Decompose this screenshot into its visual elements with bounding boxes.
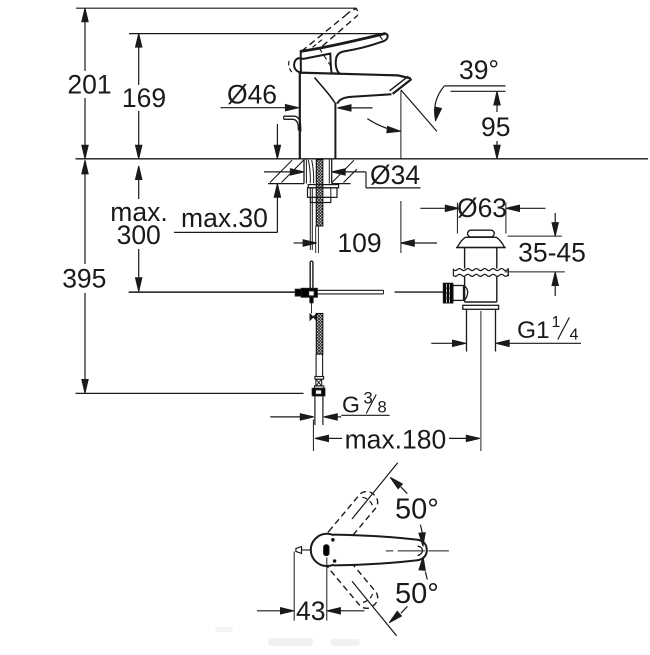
- svg-text:50°: 50°: [395, 494, 439, 526]
- dimension 43: [257, 552, 365, 627]
- svg-text:43: 43: [296, 596, 325, 626]
- 39° opposite arc arrow: [367, 119, 400, 133]
- svg-text:4: 4: [570, 327, 579, 344]
- dimension G3/8: [270, 390, 389, 421]
- faucet body and spout: [300, 73, 412, 159]
- drain lock nut (knurled): [453, 269, 508, 277]
- svg-text:G: G: [342, 392, 360, 418]
- svg-text:8: 8: [378, 399, 387, 417]
- dimension G1 1/4: [431, 314, 581, 346]
- drain plug cap: [468, 230, 495, 237]
- svg-text:395: 395: [62, 264, 106, 294]
- deck reference line: [76, 158, 649, 160]
- angle 39° label and leader arc: [435, 55, 506, 121]
- drain body: [465, 248, 497, 302]
- svg-text:109: 109: [337, 228, 381, 258]
- dimension 35-45 (clamping range): [505, 213, 586, 296]
- svg-text:95: 95: [481, 112, 510, 142]
- svg-text:Ø46: Ø46: [227, 80, 277, 110]
- drain side knob (ball rod): [443, 283, 467, 303]
- svg-text:50°: 50°: [395, 578, 439, 610]
- G3/8 thread tube: [315, 396, 323, 425]
- pop-up rod joint: [295, 288, 317, 313]
- faucet body (top view): [311, 534, 343, 566]
- dimension max.30 (deck thickness): [174, 124, 281, 233]
- dimension Ø46 right arrow: [338, 105, 373, 111]
- mounting washer and nut: [308, 185, 339, 203]
- dimension 395 (overall height with hoses): [56, 160, 113, 393]
- svg-text:G1: G1: [517, 317, 550, 344]
- hose tube left (below nut): [310, 188, 312, 250]
- deck cross-section with hatching: [268, 160, 357, 183]
- dimension Ø63: [420, 193, 545, 234]
- raised lever (dashed): [289, 9, 358, 74]
- hose-end reference line: [76, 392, 304, 394]
- drain flange: [456, 237, 506, 247]
- dimension max.180 and centrelines: [313, 311, 481, 455]
- hose end fitting: [315, 354, 324, 388]
- rod clip: [310, 314, 316, 320]
- outlet centre extension line: [400, 91, 402, 253]
- pop-up pull rod (vertical): [310, 261, 313, 288]
- hose tube centre: [316, 226, 319, 253]
- cartridge marks (top view): [324, 539, 336, 563]
- top extension line (raised lever): [76, 7, 357, 9]
- threaded shank in deck hole: [304, 159, 332, 184]
- svg-text:max.180: max.180: [345, 425, 447, 455]
- svg-text:Ø63: Ø63: [457, 193, 507, 223]
- faint scan smudges: [215, 627, 360, 646]
- lever handle (top view): [334, 535, 427, 566]
- svg-text:1: 1: [552, 314, 561, 331]
- drain tailpipe: [463, 305, 499, 351]
- dimension 95 (spout height): [451, 91, 515, 159]
- flexible hose braid (upper): [316, 160, 323, 227]
- 39° reference diagonal: [401, 90, 437, 131]
- G3/8 connection nut: [312, 388, 325, 396]
- angle 50° lower: [352, 557, 439, 636]
- svg-text:Ø34: Ø34: [370, 160, 420, 190]
- dimension Ø34 (deck hole): [264, 160, 421, 190]
- pop-up pull rod knob: [284, 116, 301, 131]
- dimension max.300 (hose length below deck): [106, 166, 172, 291]
- handle centreline (top view): [386, 550, 449, 552]
- lever-top extension line: [129, 33, 385, 35]
- flexible hose braid (lower): [316, 313, 323, 354]
- pull rod knob (top view): [296, 547, 311, 554]
- dimension 201 (raised lever height): [66, 8, 113, 159]
- svg-text:39°: 39°: [459, 55, 499, 85]
- dimension 109 (spout projection): [294, 228, 437, 258]
- rotated handle +50° (dashed): [323, 488, 382, 552]
- svg-text:max.30: max.30: [181, 203, 268, 233]
- hidden cartridge line (dashed): [319, 48, 331, 67]
- rotated handle -50° (dashed): [323, 548, 382, 612]
- angle 50° upper: [352, 463, 439, 547]
- svg-text:201: 201: [67, 70, 111, 100]
- svg-text:35-45: 35-45: [518, 238, 586, 268]
- svg-text:300: 300: [117, 220, 161, 250]
- dimension 169 (lever height): [120, 34, 168, 159]
- lever handle (side view): [294, 34, 388, 74]
- horizontal pop-up rod: [129, 290, 444, 294]
- svg-text:169: 169: [122, 83, 166, 113]
- dimension Ø46 label+left arrow: [221, 80, 299, 111]
